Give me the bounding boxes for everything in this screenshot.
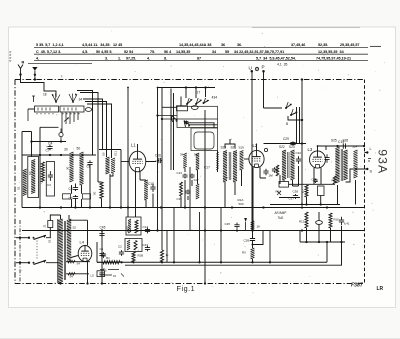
tube L4 top lead bbox=[87, 220, 89, 245]
heater tap S4a bbox=[66, 260, 90, 265]
svg-text:t: t bbox=[62, 74, 63, 78]
svg-text:F387: F387 bbox=[351, 283, 364, 289]
osc switch contact S10b bbox=[203, 98, 209, 104]
mains switch upper blade bbox=[28, 235, 46, 239]
band switch S1 contact bbox=[52, 94, 60, 103]
svg-text:36: 36 bbox=[221, 43, 225, 47]
svg-text:C2: C2 bbox=[118, 245, 122, 249]
pilot lamp bbox=[255, 67, 258, 70]
resistor R6 label bbox=[166, 253, 170, 257]
svg-text:S26: S26 bbox=[343, 139, 349, 143]
svg-text:C45: C45 bbox=[100, 226, 106, 230]
coil S6 value 30 bbox=[66, 166, 70, 170]
svg-text:C17: C17 bbox=[204, 166, 210, 170]
svg-text:50: 50 bbox=[93, 191, 97, 195]
wire L1 anode bbox=[146, 161, 156, 162]
svg-text:L2: L2 bbox=[253, 143, 258, 148]
IF2 coil S22 (hatched) bbox=[282, 150, 286, 180]
svg-text:R: R bbox=[22, 60, 25, 64]
band switch S2 label 34 bbox=[79, 98, 83, 102]
wire x190 bbox=[189, 167, 191, 231]
parts list row 2 underline bbox=[34, 53, 368, 55]
wire R3 chain bbox=[252, 231, 254, 263]
resistor box R17 bbox=[318, 186, 325, 196]
mains terminal P bbox=[262, 65, 265, 73]
switch linkage (dotted) bbox=[36, 241, 38, 260]
osc switch arm bbox=[184, 121, 190, 128]
svg-text:52 54: 52 54 bbox=[124, 50, 134, 54]
IF1 core bbox=[229, 152, 231, 180]
capacitor C15 label bbox=[148, 182, 154, 186]
cluster labels bbox=[177, 171, 200, 201]
svg-text:50: 50 bbox=[194, 153, 198, 157]
wires down from 230 row bbox=[300, 226, 342, 242]
resistor R1 label bbox=[106, 256, 110, 260]
osc wires bbox=[171, 88, 206, 171]
antenna terminal bbox=[18, 65, 23, 76]
aerial coil box S2 bbox=[28, 106, 59, 121]
drawing number F387 bbox=[351, 283, 364, 289]
wire left corner b bbox=[22, 132, 32, 208]
coil S5 (hatched) bbox=[23, 169, 27, 196]
svg-text:30: 30 bbox=[64, 148, 68, 152]
AF wires bbox=[270, 175, 340, 206]
osc corner wires bbox=[162, 107, 218, 128]
wire corner 2 bbox=[80, 93, 98, 183]
coil S4 label bbox=[28, 171, 32, 175]
wire corner 3 bbox=[83, 99, 103, 150]
resistor box R10 bbox=[126, 217, 141, 235]
capacitor C2 bbox=[119, 250, 124, 256]
svg-text:4.: 4. bbox=[147, 57, 150, 61]
parts list row 3 underline bbox=[34, 60, 368, 62]
capacitor C4 bbox=[47, 145, 52, 150]
chassis boundary bottom (dash-dot) bbox=[15, 283, 364, 285]
detector switch contact 2 bbox=[290, 109, 297, 116]
small parts cluster bbox=[180, 174, 200, 200]
svg-text:52,35.: 52,35. bbox=[318, 43, 328, 47]
wire block joins bbox=[72, 167, 114, 208]
tube L2 grid wire bbox=[244, 158, 249, 160]
capacitor C38 label bbox=[293, 190, 299, 194]
coil R13 label 1K bbox=[257, 225, 261, 229]
output transformer secondary S26 bbox=[343, 150, 347, 180]
svg-text:S23: S23 bbox=[289, 145, 295, 149]
tube L4 side lead bbox=[71, 256, 78, 258]
svg-text:S1: S1 bbox=[48, 239, 52, 243]
tube L1 cathode leads bbox=[136, 171, 147, 217]
svg-text:L5: L5 bbox=[91, 274, 95, 278]
capacitor C2 label bbox=[118, 245, 122, 249]
osc trimmer bbox=[192, 106, 199, 110]
coil S11 (hatched) bbox=[111, 158, 115, 173]
heater tap S4b bbox=[66, 273, 89, 279]
svg-text:4,5.: 4,5. bbox=[82, 50, 88, 54]
choke L5 box bbox=[97, 271, 105, 277]
svg-text:AF/AMP: AF/AMP bbox=[275, 211, 287, 215]
resistor R6 bbox=[160, 250, 163, 262]
resistor R1 bbox=[103, 261, 120, 264]
model number 93A bbox=[376, 149, 390, 174]
capacitor C28 bbox=[250, 237, 255, 243]
wire R1 left bbox=[97, 242, 103, 262]
wire corner 5 bbox=[87, 104, 112, 158]
speaker wire S bbox=[346, 168, 369, 182]
svg-text:12,35,55,35 34: 12,35,55,35 34 bbox=[318, 50, 345, 54]
svg-text:S19: S19 bbox=[239, 146, 245, 150]
svg-text:S2: S2 bbox=[73, 226, 77, 230]
wire IF1 tops bbox=[225, 139, 242, 208]
tube L3 cathode leads bbox=[314, 168, 321, 185]
AF AMP note bbox=[275, 211, 287, 220]
svg-text:C29: C29 bbox=[283, 137, 289, 141]
resistor R7 (hatched) bbox=[144, 180, 148, 200]
filter capacitor C47 bbox=[99, 271, 104, 277]
osc coil box bbox=[177, 106, 188, 111]
coil S5 label bbox=[17, 186, 21, 190]
capacitor C25 bbox=[234, 223, 239, 229]
tube L3 bbox=[310, 151, 326, 168]
wire x221 bbox=[220, 208, 222, 263]
svg-text:4.: 4. bbox=[36, 57, 39, 61]
resistor R18 label bbox=[301, 189, 305, 193]
capacitor C9 bbox=[73, 195, 78, 200]
svg-text:S4: S4 bbox=[70, 275, 74, 279]
mains switch lower blade bbox=[28, 260, 46, 264]
wire bbox=[146, 194, 153, 208]
svg-text:S4: S4 bbox=[28, 171, 32, 175]
svg-text:S6: S6 bbox=[102, 152, 106, 156]
long vertical wire b bbox=[161, 88, 163, 251]
wire x174 bbox=[173, 208, 175, 263]
svg-text:C25: C25 bbox=[225, 222, 231, 226]
capacitor C41 label bbox=[344, 222, 350, 226]
tube L4 label bbox=[80, 240, 85, 245]
capacitor C27 bbox=[263, 169, 268, 176]
parts list row 4 underline bbox=[28, 63, 92, 65]
svg-text:75.: 75. bbox=[150, 50, 155, 54]
parts list note 41 35 bbox=[277, 62, 287, 66]
resistor R26 label bbox=[138, 254, 144, 258]
detector switch contact bbox=[285, 102, 292, 109]
parts list row 2 text bbox=[36, 50, 229, 54]
svg-text:30: 30 bbox=[66, 166, 70, 170]
svg-text:37,45,46: 37,45,46 bbox=[291, 43, 305, 47]
trimmer disc bbox=[59, 129, 63, 142]
osc can inner bbox=[194, 132, 214, 149]
bus 230 dots bbox=[101, 229, 303, 231]
IF1 coil S21 label bbox=[231, 146, 237, 150]
svg-text:55: 55 bbox=[225, 50, 229, 54]
wire transformer bottom bbox=[338, 180, 356, 205]
parts list row 2 right text bbox=[234, 50, 345, 54]
svg-text:R3: R3 bbox=[242, 251, 246, 255]
tube L2 label bbox=[253, 143, 258, 148]
resistor R10 inner bbox=[128, 219, 138, 233]
coil S4 shield box bbox=[28, 157, 39, 198]
svg-text:1M: 1M bbox=[269, 174, 274, 178]
fuse label bbox=[43, 224, 47, 228]
IF2 bottom wires bbox=[284, 166, 299, 186]
coil S10 (hatched) bbox=[106, 157, 110, 174]
parts list row 1 right text bbox=[237, 43, 359, 47]
capacitor C3 box bbox=[46, 162, 54, 197]
tube L2 top lead bbox=[256, 144, 258, 151]
capacitor C19 bbox=[343, 143, 345, 148]
resistor R3 (hatched) bbox=[251, 248, 255, 259]
svg-text:6,41: 6,41 bbox=[344, 222, 350, 226]
coil S7 label 50 bbox=[77, 147, 81, 151]
svg-text:P: P bbox=[262, 65, 265, 70]
choke L5 label bbox=[91, 274, 95, 278]
box drop wires bbox=[62, 112, 78, 133]
osc coupling line bbox=[216, 151, 219, 173]
svg-text:56 4: 56 4 bbox=[164, 50, 172, 54]
switch label B bbox=[286, 122, 288, 126]
capacitor C16 label bbox=[155, 154, 161, 158]
rectifier output wire bbox=[86, 262, 88, 285]
svg-text:C7: C7 bbox=[46, 148, 50, 152]
vertical film number 4444 bbox=[9, 51, 13, 62]
output transformer core bbox=[341, 149, 342, 181]
output transformer primary S25 bbox=[335, 147, 339, 183]
svg-text:4 4 4 4: 4 4 4 4 bbox=[9, 51, 13, 62]
osc grid wire y115 bbox=[156, 114, 177, 116]
tube L4 bbox=[78, 246, 92, 262]
capacitor C6 label bbox=[87, 165, 91, 169]
svg-text:S4: S4 bbox=[77, 261, 81, 265]
aerial coil box S3 bbox=[60, 106, 84, 112]
resistor label 1M bbox=[269, 174, 274, 178]
svg-text:16: 16 bbox=[113, 274, 117, 278]
svg-text:L4: L4 bbox=[80, 240, 85, 245]
resistor R5 bbox=[100, 182, 103, 199]
svg-text:97,25.: 97,25. bbox=[126, 57, 136, 61]
svg-text:R16: R16 bbox=[334, 218, 340, 222]
parts list row 1 text bbox=[36, 43, 225, 47]
parts list row 3 text bbox=[36, 57, 201, 61]
coil S24 (hatched) bbox=[354, 150, 358, 178]
svg-text:34: 34 bbox=[79, 98, 83, 102]
svg-text:7kΩ: 7kΩ bbox=[278, 216, 284, 220]
resistor R9 bbox=[333, 176, 336, 184]
resistor R9 label bbox=[332, 179, 336, 183]
svg-text:C16: C16 bbox=[155, 154, 161, 158]
osc can box bbox=[191, 128, 218, 151]
resistor R3 label bbox=[242, 251, 246, 255]
osc switch arm 2 bbox=[171, 115, 178, 122]
resistor R12 bbox=[305, 212, 308, 228]
grid wire to L1 bbox=[99, 150, 121, 208]
wire to detector switch bbox=[264, 107, 283, 109]
capacitor C38 bbox=[293, 194, 298, 199]
capacitor C14 bbox=[145, 228, 150, 234]
svg-text:18: 18 bbox=[43, 93, 47, 97]
gang marks bbox=[32, 96, 35, 102]
svg-text:3.: 3. bbox=[105, 57, 108, 61]
transformer labels bbox=[48, 226, 77, 244]
svg-text:4,5,44 11. 34,35.: 4,5,44 11. 34,35. bbox=[82, 43, 111, 47]
resistor box 50s bbox=[83, 194, 91, 199]
switch contact dots bbox=[36, 113, 79, 114]
capacitor C7 label bbox=[46, 148, 50, 152]
parts list small mark right bbox=[370, 45, 381, 47]
svg-text:36.: 36. bbox=[237, 43, 242, 47]
cluster wires bbox=[181, 168, 198, 208]
svg-text:14,35,44,45,44A 38: 14,35,44,45,44A 38 bbox=[179, 43, 211, 47]
svg-text:L1: L1 bbox=[131, 143, 136, 148]
mains transformer secondary winding bbox=[67, 219, 71, 262]
capacitor C15 bbox=[150, 184, 155, 192]
resistor R16 label bbox=[334, 218, 340, 222]
svg-text:21: 21 bbox=[43, 224, 47, 228]
wire x167 bbox=[166, 231, 168, 263]
transformer core bbox=[64, 221, 65, 280]
svg-text:87: 87 bbox=[197, 57, 201, 61]
coil S4 (hatched) bbox=[31, 160, 35, 194]
capacitor C45 bbox=[99, 231, 104, 237]
osc switch label 17 bbox=[197, 91, 201, 95]
capacitor C14 label bbox=[143, 225, 149, 229]
IF can small coils bbox=[183, 153, 199, 170]
anode wire to output transformer bbox=[317, 145, 366, 147]
wire x199 bbox=[199, 212, 201, 262]
wire from U terminal bbox=[251, 71, 253, 230]
tube L1 grid wire bbox=[121, 161, 129, 163]
svg-text:LR: LR bbox=[377, 286, 384, 292]
grid stopper parts bbox=[272, 165, 279, 176]
capacitor C41 bbox=[339, 217, 344, 226]
chassis boundary right (dashed) bbox=[364, 80, 366, 284]
svg-text:S1: S1 bbox=[17, 186, 21, 190]
capacitor C35 bbox=[313, 179, 317, 183]
parts list row 3 right text bbox=[256, 57, 351, 61]
fuse wires bbox=[46, 215, 61, 263]
IF1 coil S20 (hatched) bbox=[223, 151, 227, 183]
band switch S1 label 18 bbox=[43, 93, 47, 97]
AVC node wire bbox=[30, 140, 66, 142]
svg-text:8.: 8. bbox=[164, 57, 167, 61]
capacitor C16 bbox=[158, 158, 162, 163]
svg-text:R9: R9 bbox=[332, 179, 336, 183]
volume pot label R14 bbox=[276, 190, 282, 194]
lower bus 230 bbox=[22, 230, 364, 232]
svg-text:C3: C3 bbox=[47, 183, 51, 187]
svg-text:1.: 1. bbox=[118, 57, 121, 61]
coil S7 (hatched) bbox=[80, 152, 84, 185]
parts list row 4 R label bbox=[22, 60, 25, 64]
figure caption Fig.1 bbox=[177, 284, 196, 293]
capacitor C37 label bbox=[289, 197, 295, 201]
capacitor C29 bbox=[290, 141, 295, 145]
coil S19 label bbox=[239, 146, 245, 150]
small arm under box bbox=[64, 118, 69, 122]
resistor R18 bbox=[305, 185, 308, 197]
band switch S2 contact bbox=[69, 93, 77, 103]
IF2 core bbox=[288, 152, 290, 178]
svg-text:50: 50 bbox=[77, 147, 81, 151]
capacitor C9 label bbox=[69, 197, 73, 201]
mains terminal U bbox=[249, 66, 254, 73]
svg-text:C4: C4 bbox=[48, 141, 53, 145]
svg-text:4,1 35: 4,1 35 bbox=[277, 62, 287, 66]
svg-text:S21: S21 bbox=[231, 146, 237, 150]
svg-text:R12: R12 bbox=[299, 220, 305, 224]
screen supply vertical bbox=[301, 78, 303, 204]
switch output wire bbox=[288, 116, 303, 121]
resistor R10 label bbox=[125, 225, 129, 231]
svg-text:C15: C15 bbox=[148, 182, 154, 186]
output transformer S26 label bbox=[343, 139, 349, 143]
speaker wire L bbox=[346, 146, 369, 154]
tube L2 bbox=[249, 150, 264, 167]
svg-text:5 35. 5,7 1,2 4,1: 5 35. 5,7 1,2 4,1 bbox=[36, 43, 64, 47]
filter capacitor C46 bbox=[99, 252, 104, 258]
filter cap wire bbox=[101, 231, 103, 285]
parts list row 1 underline bbox=[34, 46, 368, 48]
svg-text:L3: L3 bbox=[308, 147, 313, 152]
speaker terminal S label bbox=[370, 170, 373, 174]
tube L1 top lead bbox=[137, 144, 139, 151]
antenna lead-in wire bbox=[21, 75, 57, 97]
svg-text:500: 500 bbox=[239, 202, 244, 206]
svg-text:434: 434 bbox=[212, 96, 218, 100]
capacitor C28 label bbox=[244, 238, 250, 242]
osc coil pack box bbox=[177, 106, 218, 127]
capacitor C35 label bbox=[312, 178, 318, 182]
coil S10 label bbox=[102, 152, 106, 156]
volume pot box P4 bbox=[279, 182, 289, 188]
terminal tick marks bbox=[368, 159, 371, 162]
svg-text:R1: R1 bbox=[106, 256, 110, 260]
coil S6 label bbox=[64, 148, 68, 152]
capacitor C32 bbox=[296, 156, 301, 164]
capacitor C8 label bbox=[69, 187, 73, 191]
svg-text:L: L bbox=[370, 147, 372, 151]
IF2 coil S22 label bbox=[279, 145, 285, 149]
IF1 coil S20 label bbox=[221, 146, 227, 150]
IF2 coil S23 label bbox=[289, 145, 295, 149]
svg-text:B: B bbox=[286, 122, 288, 126]
wire R3 branch bbox=[253, 231, 264, 245]
padder capacitor C11 bbox=[185, 121, 189, 125]
svg-text:S25: S25 bbox=[331, 139, 337, 143]
svg-text:7,10: 7,10 bbox=[125, 225, 129, 231]
capacitor C3 bbox=[48, 171, 53, 181]
mains switch upper wire bbox=[16, 237, 29, 239]
long vertical wire a bbox=[157, 88, 159, 231]
IF1 coil S21 (hatched) bbox=[233, 151, 237, 183]
svg-text:93A: 93A bbox=[376, 149, 390, 174]
resistor R2 bbox=[41, 162, 44, 182]
osc switch label 434 bbox=[212, 96, 218, 100]
avc double wire bbox=[297, 107, 300, 144]
capacitor C20 bbox=[324, 154, 329, 163]
svg-text:74,75,95,97,45,19-21: 74,75,95,97,45,19-21 bbox=[316, 57, 351, 61]
mains transformer primary winding bbox=[58, 219, 63, 283]
coil S6 (hatched) bbox=[70, 152, 74, 182]
svg-text:S11: S11 bbox=[114, 151, 118, 156]
svg-text:C32: C32 bbox=[296, 151, 302, 155]
top edge smudge bbox=[252, 26, 360, 28]
svg-text:25,35,45,57: 25,35,45,57 bbox=[340, 43, 359, 47]
left block top rail bbox=[22, 154, 96, 156]
IF2 coil S23 (hatched) bbox=[291, 150, 295, 180]
scan speckle noise bbox=[19, 31, 385, 294]
tube L3 label bbox=[308, 147, 313, 152]
svg-text:S24: S24 bbox=[352, 145, 358, 149]
wire x270 bbox=[269, 231, 271, 263]
